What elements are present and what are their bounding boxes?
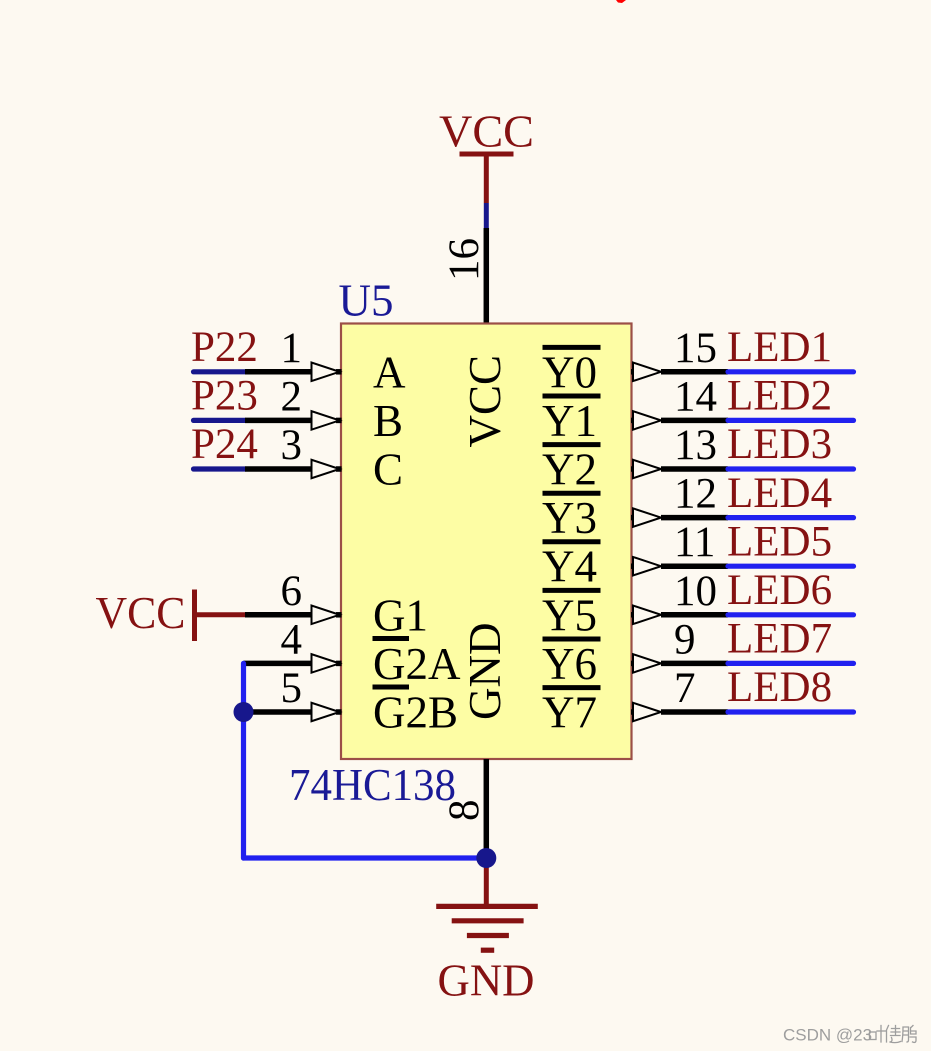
- pin 11 arrow: [633, 557, 661, 576]
- pin 13 arrow: [633, 460, 661, 479]
- svg-text:Y3: Y3: [542, 493, 597, 543]
- svg-text:12: 12: [674, 471, 717, 518]
- svg-text:G2A: G2A: [373, 639, 461, 689]
- svg-text:Y6: Y6: [542, 639, 597, 689]
- wire net LED3: [728, 466, 854, 471]
- svg-text:LED7: LED7: [727, 616, 832, 663]
- svg-text:Y2: Y2: [542, 445, 597, 495]
- svg-text:G1: G1: [373, 590, 428, 640]
- svg-text:1: 1: [281, 325, 303, 372]
- svg-text:2: 2: [281, 373, 303, 420]
- svg-text:LED3: LED3: [727, 421, 832, 468]
- pin 14 arrow: [633, 411, 661, 430]
- svg-text:74HC138: 74HC138: [289, 760, 456, 810]
- pin 3 arrow: [312, 460, 340, 479]
- pin 5 wire: [244, 709, 312, 715]
- pin 14 wire: [631, 418, 636, 424]
- svg-text:B: B: [373, 396, 403, 446]
- pin 10 wire: [631, 612, 636, 618]
- pin 6 arrow: [312, 606, 340, 625]
- pin 4 arrow: [312, 654, 340, 673]
- svg-text:6: 6: [281, 568, 303, 615]
- wire net LED6: [728, 612, 854, 617]
- svg-text:7: 7: [674, 665, 696, 712]
- svg-text:Y1: Y1: [542, 396, 597, 446]
- power port VCC (top): [439, 107, 534, 204]
- svg-text:16: 16: [441, 238, 488, 281]
- svg-text:LED8: LED8: [727, 664, 832, 711]
- power port VCC (left): [96, 588, 246, 641]
- wire G2 net horizontal to GND junction: [244, 855, 487, 860]
- red artifact mark top: [616, 0, 626, 3]
- wire G2A/G2B net vertical: [241, 663, 246, 858]
- pin 2 wire: [245, 418, 312, 424]
- pin 12 wire: [631, 515, 636, 521]
- pin 15 arrow: [633, 363, 661, 382]
- pin 10 arrow: [633, 606, 661, 625]
- wire GND net: [484, 858, 489, 906]
- svg-text:P24: P24: [191, 421, 258, 468]
- pin 9 wire: [631, 661, 636, 667]
- svg-text:Y0: Y0: [542, 347, 597, 397]
- svg-text:14: 14: [674, 373, 717, 420]
- wire net LED8: [728, 709, 854, 714]
- svg-text:LED4: LED4: [727, 470, 832, 517]
- svg-text:5: 5: [281, 665, 303, 712]
- pin 5 arrow: [312, 703, 340, 722]
- svg-text:GND: GND: [460, 623, 510, 721]
- junction node G2B: [234, 702, 254, 722]
- pin 12 arrow: [633, 508, 661, 526]
- svg-text:P22: P22: [191, 324, 258, 371]
- svg-text:3: 3: [281, 422, 303, 469]
- pin 15 wire: [631, 369, 636, 375]
- svg-text:C: C: [373, 445, 403, 495]
- svg-text:LED5: LED5: [727, 518, 832, 565]
- wire net LED4: [728, 515, 854, 520]
- watermark chinese glyphs: [870, 1026, 917, 1043]
- ground symbol: [436, 906, 538, 950]
- pin 4 wire: [244, 661, 312, 667]
- svg-text:LED6: LED6: [727, 567, 832, 614]
- svg-text:LED1: LED1: [727, 324, 832, 371]
- pin 2 arrow: [312, 411, 340, 430]
- pin 1 arrow: [312, 363, 340, 382]
- svg-text:8: 8: [441, 800, 488, 822]
- wire net P22: [194, 369, 246, 374]
- svg-text:P23: P23: [191, 373, 258, 420]
- pin 7 wire: [631, 709, 636, 715]
- wire net LED1: [728, 369, 854, 374]
- svg-text:A: A: [373, 347, 406, 397]
- pin 3 wire: [245, 466, 312, 472]
- svg-text:GND: GND: [438, 956, 535, 1006]
- wire net P23: [194, 418, 246, 423]
- svg-text:LED2: LED2: [727, 373, 832, 420]
- svg-text:15: 15: [674, 325, 717, 372]
- pin 7 arrow: [633, 703, 661, 722]
- svg-text:13: 13: [674, 422, 717, 469]
- svg-text:10: 10: [674, 568, 717, 615]
- pin 6 wire: [245, 612, 312, 618]
- pin 13 wire: [631, 466, 636, 472]
- pin 1 wire: [245, 369, 312, 375]
- svg-text:VCC: VCC: [460, 355, 510, 448]
- junction node GND: [476, 848, 496, 868]
- wire VCC net to pin 16: [484, 203, 489, 228]
- svg-text:VCC: VCC: [439, 107, 534, 157]
- pin 8 wire: [484, 759, 490, 858]
- wire net LED7: [728, 661, 854, 666]
- wire net LED5: [728, 564, 854, 569]
- pin 16 wire: [484, 228, 490, 324]
- op-amp U5 74HC138 decoder body: [341, 324, 632, 760]
- pin 9 arrow: [633, 654, 661, 673]
- wire net LED2: [728, 418, 854, 423]
- svg-text:CSDN @23: CSDN @23: [783, 1026, 872, 1045]
- svg-text:U5: U5: [339, 276, 394, 326]
- svg-text:Y5: Y5: [542, 590, 597, 640]
- svg-text:Y4: Y4: [542, 542, 597, 592]
- pin 11 wire: [631, 563, 636, 569]
- wire net P24: [194, 466, 246, 471]
- svg-text:11: 11: [674, 519, 715, 566]
- svg-text:Y7: Y7: [542, 688, 597, 738]
- svg-text:G2B: G2B: [373, 688, 458, 738]
- svg-text:VCC: VCC: [96, 588, 186, 638]
- svg-text:9: 9: [674, 616, 696, 663]
- svg-text:4: 4: [281, 616, 303, 663]
